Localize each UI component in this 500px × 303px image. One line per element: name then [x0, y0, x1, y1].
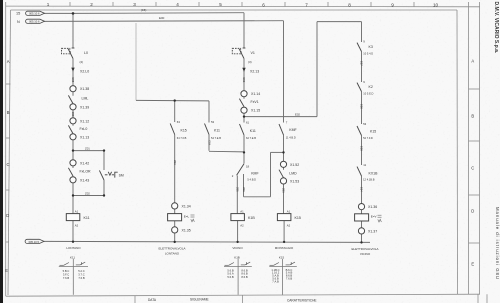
svg-text:53: 53 [363, 122, 367, 126]
wire branchA KMF pin2 down to coil K1B [236, 176, 238, 214]
svg-text:FxLOR: FxLOR [80, 170, 92, 174]
svg-text:Z01: Z01 [85, 147, 90, 151]
node rail bottom K1B [236, 241, 238, 243]
svg-text:VICINO: VICINO [232, 246, 243, 250]
wire branchA K11 to KMF [243, 135, 245, 164]
svg-text:KMF: KMF [251, 171, 258, 175]
contact KMF 7-11 [279, 121, 297, 140]
column tick marks top band [69, 2, 71, 7]
svg-text:X1.42: X1.42 [80, 161, 89, 165]
left row tick marks [6, 83, 11, 85]
node rail bottom K11 [72, 241, 74, 243]
wire middle column segments [243, 59, 245, 91]
svg-text:B: B [471, 114, 474, 119]
inner frame right [456, 10, 459, 294]
wire K11 53-54 branch return horizontal [209, 150, 244, 153]
svg-text:11: 11 [363, 163, 366, 167]
wire riser col7 [316, 22, 318, 117]
svg-text:A2: A2 [75, 224, 79, 228]
wire rail1 (15) top horizontal [73, 12, 244, 15]
switch L0 with actuator box [62, 48, 75, 59]
wire X1.34 to E=L coil [174, 209, 176, 214]
svg-text:VICINO: VICINO [360, 252, 371, 256]
svg-text:E=V: E=V [371, 215, 377, 219]
coil K11 [66, 210, 89, 228]
contact K11 53-54 [205, 120, 222, 140]
wire K1B coil to rail [237, 221, 239, 242]
wire SM branch lower [103, 180, 105, 196]
svg-text:MONTAGGIO: MONTAGGIO [275, 246, 294, 250]
svg-text:10: 10 [433, 3, 439, 8]
svg-text:DATA: DATA [148, 298, 157, 302]
svg-text:K1B: K1B [248, 216, 255, 220]
wire cross horizontal E02 [244, 116, 317, 118]
wire faint drop col3 [135, 23, 137, 100]
wire SM branch upper [103, 151, 105, 170]
svg-text:V1: V1 [251, 51, 255, 55]
svg-text:N: N [17, 20, 20, 24]
svg-text:A1: A1 [240, 210, 244, 214]
svg-text:X1.37: X1.37 [368, 229, 377, 233]
svg-text:A: A [7, 59, 10, 64]
svg-text:X1.15: X1.15 [251, 109, 260, 113]
right row tick marks [469, 88, 480, 90]
svg-text:SIGLENAME: SIGLENAME [190, 297, 209, 301]
svg-text:005.10.6: 005.10.6 [29, 20, 40, 24]
wire return path vertical [270, 152, 272, 196]
svg-text:FxV1: FxV1 [251, 100, 259, 104]
svg-text:K3: K3 [369, 45, 373, 49]
terminal X1.13 [70, 134, 76, 140]
svg-text:K11: K11 [84, 216, 90, 220]
svg-text:63: 63 [177, 120, 181, 124]
svg-text:(3): (3) [248, 60, 252, 64]
terminal X1.39 [70, 104, 76, 110]
node junction1 right [103, 149, 105, 151]
svg-text:7.6.B: 7.6.B [78, 276, 84, 280]
wire branchB between terminals [283, 167, 285, 169]
svg-text:8: 8 [348, 3, 351, 8]
svg-text:A1: A1 [287, 210, 291, 214]
coil K15 [277, 210, 301, 228]
svg-text:005.10.6: 005.10.6 [29, 12, 40, 16]
svg-text:E04: E04 [359, 187, 363, 192]
svg-text:B: B [7, 110, 10, 115]
svg-text:E02: E02 [295, 113, 300, 117]
svg-text:K2: K2 [369, 85, 373, 89]
source arrow 15 [16, 11, 45, 15]
svg-text:7: 7 [305, 2, 308, 7]
svg-text:11 4.B.D: 11 4.B.D [286, 136, 296, 140]
scan edge black strip [0, 0, 3, 303]
svg-text:7.6.B: 7.6.B [286, 277, 292, 281]
switch FxV1 [239, 99, 244, 107]
switch FxL0 [68, 125, 73, 133]
svg-text:X2.13: X2.13 [250, 70, 259, 74]
svg-text:Z02: Z02 [85, 192, 90, 196]
svg-text:ELETTROVALVOLA: ELETTROVALVOLA [351, 247, 378, 251]
title strip tick marks [134, 296, 136, 303]
wire K11 53-54 branch vertical [208, 101, 210, 123]
right letter band outer line [468, 2, 470, 294]
inner frame top [11, 9, 458, 11]
column numbers 1-10 [47, 2, 439, 8]
svg-text:E: E [471, 262, 474, 267]
wire E=L branch horizontal [136, 99, 209, 102]
svg-text:C: C [471, 166, 474, 171]
svg-text:3.7.C: 3.7.C [78, 273, 84, 277]
wire return path top horizontal [271, 151, 284, 153]
connector arrow S2.L0 [71, 68, 74, 72]
wire junction1 horizontal Z01 [73, 150, 104, 152]
svg-text:10 5.4.D: 10 5.4.D [363, 52, 373, 56]
right row letters A-E [471, 59, 474, 267]
svg-text:Z06: Z06 [242, 187, 246, 192]
switch SM with detent [99, 170, 117, 180]
svg-text:A2: A2 [240, 224, 244, 228]
contact KX1B 11-12 [357, 163, 378, 181]
wire middle column V1 drop [243, 13, 245, 49]
node branchB return [282, 151, 284, 153]
svg-text:62 7.E.B: 62 7.E.B [246, 136, 256, 140]
svg-text:K11: K11 [70, 255, 75, 259]
coil E=L electrovalve [168, 214, 195, 222]
svg-text:53: 53 [211, 120, 215, 124]
switch FxLOR [68, 168, 73, 176]
svg-text:K11: K11 [250, 129, 256, 133]
svg-text:K15: K15 [181, 129, 187, 133]
svg-text:Z08: Z08 [71, 112, 75, 117]
svg-text:A: A [471, 59, 474, 64]
svg-text:7.A.B: 7.A.B [272, 279, 279, 283]
svg-text:A2: A2 [287, 224, 291, 228]
wire right column segments [361, 22, 363, 42]
svg-text:ELETTROVALVOLA: ELETTROVALVOLA [158, 247, 185, 251]
svg-text:X1.38: X1.38 [80, 87, 89, 91]
svg-text:LONTANO: LONTANO [66, 246, 81, 250]
svg-text:5.B.C: 5.B.C [63, 269, 70, 273]
contact K11 61-62 [240, 121, 257, 141]
svg-text:X1.12: X1.12 [80, 119, 89, 123]
node E02 junction [243, 115, 245, 117]
svg-text:54 7.E.B: 54 7.E.B [211, 136, 221, 140]
terminal X1.38 [70, 86, 76, 92]
source arrow N [17, 19, 45, 24]
svg-text:15: 15 [16, 12, 20, 16]
cross-ref table K1B [224, 255, 252, 294]
node junction2 left [72, 194, 74, 196]
node junction2 right [103, 194, 105, 196]
svg-text:1: 1 [47, 2, 50, 7]
svg-text:LMD: LMD [289, 171, 297, 175]
wire E=L coil to X1.35 [174, 221, 176, 227]
terminal X1.53 [280, 178, 286, 184]
svg-text:E09: E09 [359, 146, 363, 151]
terminal X1.15 [241, 107, 247, 113]
wire E=L main vertical lower [174, 135, 176, 203]
svg-text:5.6.B: 5.6.B [227, 275, 233, 279]
wire return path bottom horizontal [244, 196, 271, 198]
svg-text:X1.13: X1.13 [80, 135, 89, 139]
svg-text:Z05: Z05 [236, 187, 240, 192]
changeover contact KMF 18-2 [232, 164, 259, 182]
connector arrow S2.13 [242, 68, 245, 72]
terminal X1.42 [70, 160, 76, 166]
contact K15 53-54 right [357, 122, 376, 140]
svg-text:L0: L0 [84, 51, 88, 55]
wire left column middle [72, 59, 74, 86]
wire E=L coil to rail [174, 233, 176, 242]
svg-text:KX1B: KX1B [369, 171, 379, 175]
terminal X1.34 [172, 203, 178, 209]
switch V1 with actuator box [232, 48, 245, 59]
wire K11 coil to bottom rail [72, 221, 74, 242]
svg-text:X1.43: X1.43 [80, 178, 89, 182]
svg-text:3: 3 [133, 2, 136, 7]
svg-text:D: D [6, 213, 9, 218]
svg-text:KMF: KMF [289, 128, 296, 132]
terminal X1.43 [70, 177, 76, 183]
svg-text:005.10.5: 005.10.5 [29, 240, 40, 244]
svg-text:K11: K11 [214, 129, 220, 133]
svg-text:Z03: Z03 [282, 188, 286, 193]
wire branchB KMF to X1.52 [283, 135, 285, 161]
svg-text:X1.39: X1.39 [80, 105, 89, 109]
svg-text:E08: E08 [359, 104, 363, 109]
wire rail1 from source arrow [44, 12, 73, 14]
left row letters A-E [5, 59, 10, 273]
svg-text:D: D [471, 209, 474, 214]
svg-text:D.M.V. VICARIO S.p.a.: D.M.V. VICARIO S.p.a. [493, 2, 499, 54]
wire E=L main vertical upper [174, 101, 176, 122]
node rail bottom K15 [283, 241, 285, 243]
terminal X1.35 [172, 227, 178, 233]
svg-text:8.6.B: 8.6.B [241, 275, 247, 279]
terminal X1.52 [280, 161, 286, 167]
switch LML [68, 95, 73, 103]
contact K2 9-10 [357, 80, 374, 96]
svg-text:E05: E05 [71, 78, 75, 83]
svg-text:2: 2 [90, 2, 93, 7]
svg-text:K1B: K1B [234, 255, 240, 259]
wire drop E00 to KMF branch [283, 21, 285, 123]
svg-text:X1.34: X1.34 [182, 204, 191, 208]
inner frame left [8, 10, 11, 295]
svg-text:LML: LML [82, 97, 89, 101]
outer border left [5, 2, 7, 296]
contact K15 63-64 [170, 120, 187, 140]
switch LMD [279, 170, 284, 178]
svg-text:3.F.C: 3.F.C [63, 273, 69, 277]
svg-text:10 5.E.D: 10 5.E.D [363, 92, 373, 96]
node branchA KMF top [243, 151, 245, 153]
wire left column top [72, 13, 74, 48]
bottom frame line [6, 294, 480, 296]
svg-text:5: 5 [219, 2, 222, 7]
wire K15 coil to rail [283, 221, 285, 242]
terminal X1.37 [358, 228, 364, 234]
bottom source arrow 005.10.5 [25, 239, 44, 244]
svg-text:Z03: Z03 [173, 160, 177, 165]
contact K3 9-10 [357, 40, 373, 56]
svg-text:X1.36: X1.36 [368, 205, 377, 209]
svg-text:6: 6 [262, 2, 265, 7]
node rail bottom E=L [174, 241, 176, 243]
svg-text:64 7.F.B: 64 7.F.B [177, 136, 187, 140]
svg-text:E06: E06 [242, 78, 246, 83]
svg-text:Manuale di istruzioni G8U: Manuale di istruzioni G8U [495, 207, 500, 280]
svg-text:9: 9 [391, 3, 394, 8]
svg-text:X1.53: X1.53 [290, 179, 299, 183]
wire junction2 horizontal Z02 [73, 195, 104, 197]
svg-text:7.6.B: 7.6.B [63, 276, 69, 280]
wire branchA KMF second throw down [243, 174, 245, 197]
svg-text:18: 18 [246, 164, 250, 168]
node rail1/left column [72, 12, 75, 15]
wire bottom rail N [44, 241, 371, 242]
cross-ref table K11 [59, 255, 88, 294]
svg-text:E=L: E=L [184, 214, 190, 218]
node rail bottom E=V [360, 241, 362, 243]
node junction1 left [72, 149, 74, 151]
coil K1B [231, 210, 255, 228]
svg-text:5 4.B.D: 5 4.B.D [247, 177, 256, 181]
svg-text:K15: K15 [295, 216, 301, 220]
svg-text:(15): (15) [141, 8, 146, 12]
svg-text:X1.14: X1.14 [251, 92, 260, 96]
coil E=V electrovalve [355, 214, 382, 222]
svg-text:K15: K15 [370, 129, 376, 133]
svg-text:E: E [5, 268, 8, 273]
wire rail2 E00 top horizontal [44, 20, 284, 23]
svg-text:4: 4 [176, 2, 179, 7]
svg-text:E00: E00 [159, 16, 165, 20]
right margin line [479, 2, 481, 294]
node E=L branch [174, 99, 176, 101]
svg-text:A1: A1 [75, 210, 79, 214]
svg-text:54 7.F.D: 54 7.F.D [363, 136, 373, 140]
cross-ref table K15 [269, 255, 297, 294]
svg-text:E07: E07 [359, 61, 363, 66]
svg-text:X1.35: X1.35 [182, 228, 191, 232]
terminal X1.12 [70, 118, 76, 124]
svg-text:LONTANO: LONTANO [165, 252, 180, 256]
svg-text:E04: E04 [207, 141, 211, 146]
svg-text:C: C [6, 162, 9, 167]
svg-text:12 4.1B.B: 12 4.1B.B [363, 177, 375, 181]
svg-text:(2): (2) [80, 60, 84, 64]
wire branchB X1.53 to coil K15 [283, 184, 285, 214]
svg-text:FxL0: FxL0 [80, 127, 88, 131]
terminal X1.14 [241, 91, 247, 97]
wire box top to right column [317, 21, 362, 23]
svg-text:K15: K15 [279, 255, 285, 259]
svg-text:CARATTERISTICHE: CARATTERISTICHE [287, 298, 317, 302]
svg-text:X2.L0: X2.L0 [80, 69, 89, 73]
svg-text:61: 61 [246, 121, 250, 125]
svg-text:5.2.C: 5.2.C [78, 269, 84, 273]
svg-text:SM: SM [119, 174, 124, 178]
terminal X1.36 [358, 204, 364, 210]
svg-text:X1.52: X1.52 [290, 163, 299, 167]
outer border top / column band line [6, 5, 480, 8]
